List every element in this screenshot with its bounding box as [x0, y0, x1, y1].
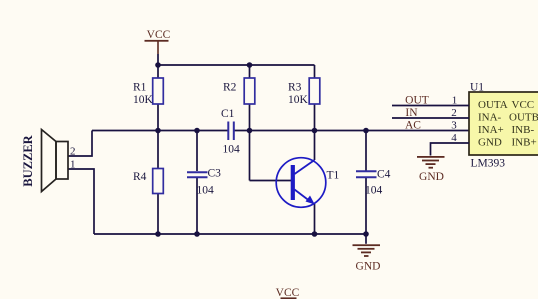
svg-text:104: 104 [197, 185, 215, 197]
wire buzzer pin1 drop [68, 169, 94, 234]
svg-text:GND: GND [356, 260, 381, 272]
wire transistor collector [314, 131, 316, 161]
wire mid rail left of C1 [92, 130, 228, 132]
wire bottom rail [94, 233, 366, 235]
svg-text:C3: C3 [208, 168, 222, 180]
svg-text:T1: T1 [327, 170, 340, 182]
ground symbol at bottom rail [353, 244, 381, 272]
svg-text:10K: 10K [133, 94, 154, 106]
VCC power symbol top [145, 29, 171, 54]
buzzer LS [21, 130, 76, 192]
wire R3 top lead [314, 65, 316, 78]
svg-text:2: 2 [70, 146, 76, 158]
svg-text:BUZZER: BUZZER [21, 134, 35, 186]
node junction R3 bottom / collector [312, 128, 318, 134]
svg-text:OUTB: OUTB [509, 111, 538, 123]
svg-text:AC: AC [405, 119, 421, 131]
wire mid rail right of C1 to IC pin3 [235, 130, 470, 132]
svg-text:3: 3 [451, 119, 457, 131]
svg-text:R2: R2 [223, 82, 237, 94]
resistor R2 [223, 78, 255, 104]
wire transistor emitter [314, 204, 316, 234]
svg-text:LM393: LM393 [471, 157, 506, 169]
svg-text:OUTA: OUTA [478, 99, 508, 111]
wire GND stub bottom rail [365, 234, 367, 244]
node junction R1 bottom mid rail [155, 128, 161, 134]
svg-text:GND: GND [419, 171, 444, 183]
resistor R4 [133, 169, 163, 194]
wire C3 bottom lead [196, 178, 198, 234]
transistor T1 [276, 158, 339, 208]
svg-text:U1: U1 [470, 81, 484, 93]
svg-text:4: 4 [451, 132, 457, 144]
op-amp U1 LM393 [469, 81, 538, 169]
wire U1 pin 1 [392, 105, 469, 107]
node junction C3 bottom [194, 231, 200, 237]
wire R1 bottom lead [157, 104, 159, 131]
wire R4 top lead [157, 131, 159, 169]
node junction R4 bottom [155, 231, 161, 237]
svg-text:C4: C4 [377, 169, 391, 181]
svg-text:10K: 10K [288, 94, 309, 106]
svg-text:1: 1 [452, 94, 458, 106]
svg-text:R4: R4 [133, 171, 147, 183]
VCC power symbol bottom [276, 287, 300, 299]
svg-text:VCC: VCC [276, 287, 300, 299]
svg-text:R1: R1 [133, 82, 147, 94]
capacitor C3 [187, 168, 221, 197]
resistor R1 [133, 78, 163, 106]
wire C3 top lead [196, 131, 198, 172]
node junction R1 top / VCC [155, 62, 161, 68]
wire R2 top lead [249, 65, 251, 78]
wire R3 bottom lead [314, 104, 316, 131]
node junction C4 bottom / GND [363, 231, 369, 237]
svg-text:INB-: INB- [512, 124, 535, 136]
node junction C3 top [194, 128, 200, 134]
node junction R2 bottom / C1 [247, 128, 253, 134]
capacitor C4 [356, 169, 391, 197]
wire transistor base branch [250, 180, 292, 182]
wire C4 bottom lead [365, 178, 367, 235]
svg-text:GND: GND [478, 136, 502, 148]
capacitor C1 [221, 108, 240, 156]
svg-text:1: 1 [70, 159, 76, 171]
wire top rail [158, 64, 315, 66]
svg-text:VCC: VCC [147, 29, 171, 41]
svg-text:C1: C1 [221, 108, 235, 120]
svg-text:IN: IN [405, 107, 418, 119]
wire R1 top lead [157, 65, 159, 78]
wire R4 bottom lead [157, 194, 159, 235]
wire C4 top lead [365, 131, 367, 171]
svg-text:INB+: INB+ [512, 136, 537, 148]
node junction C4 top [363, 128, 369, 134]
svg-text:INA-: INA- [478, 111, 502, 123]
svg-text:R3: R3 [288, 82, 302, 94]
svg-text:2: 2 [451, 107, 457, 119]
svg-text:VCC: VCC [512, 99, 535, 111]
wire buzzer pin2 riser [68, 131, 92, 157]
wire R2 bottom lead down to base branch [249, 104, 251, 181]
wire U1 pin 4 [431, 143, 470, 156]
ground symbol at U1 pin 4 [417, 156, 445, 183]
svg-text:104: 104 [223, 144, 241, 156]
svg-text:INA+: INA+ [478, 124, 504, 136]
wire VCC stem to top rail [157, 54, 159, 65]
node junction R2 top [247, 62, 253, 68]
resistor R3 [288, 78, 320, 106]
svg-text:OUT: OUT [405, 94, 429, 106]
node junction emitter bottom [312, 231, 318, 237]
wire U1 pin 2 [392, 117, 469, 119]
svg-text:104: 104 [365, 185, 383, 197]
